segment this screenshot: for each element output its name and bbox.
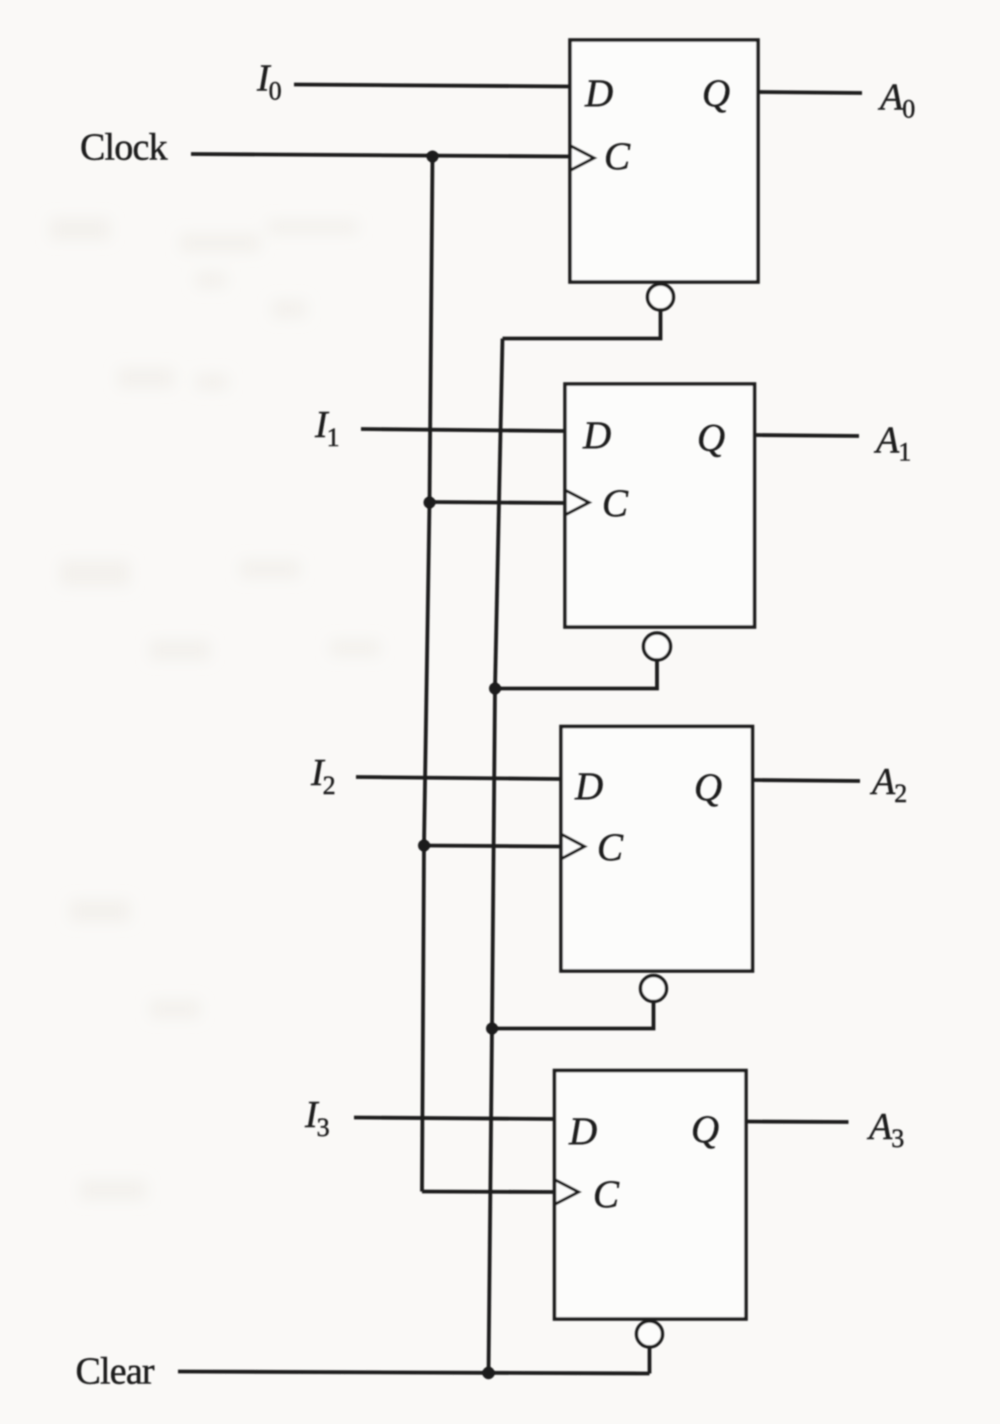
wire I1 to U2 D bbox=[361, 429, 565, 431]
wire Clear input bbox=[178, 1372, 650, 1374]
faint scan bleed-through smudges bbox=[50, 218, 380, 1200]
svg-text:Q: Q bbox=[691, 1108, 719, 1151]
wire clock to U2 C bbox=[430, 502, 566, 503]
svg-text:Q: Q bbox=[697, 417, 725, 460]
wire U1 Q to A0 bbox=[758, 92, 862, 93]
svg-text:Clock: Clock bbox=[80, 127, 168, 169]
U2 clear bubble bbox=[644, 633, 671, 660]
svg-text:C: C bbox=[597, 826, 624, 869]
wire U3 Q to A2 bbox=[753, 780, 861, 781]
flip-flop U1 box bbox=[570, 40, 758, 282]
wire U2 Q to A1 bbox=[755, 435, 860, 436]
flip-flop U4 box bbox=[555, 1071, 747, 1320]
wire I3 to U4 D bbox=[354, 1118, 555, 1120]
junction dot clear/U2 bbox=[489, 683, 501, 695]
junction dot clock/U2C bbox=[424, 497, 436, 509]
svg-text:D: D bbox=[574, 765, 603, 808]
wire U4 Q to A3 bbox=[746, 1120, 849, 1124]
svg-text:Q: Q bbox=[702, 72, 730, 115]
flip-flop U2 box bbox=[565, 384, 755, 627]
svg-text:D: D bbox=[584, 72, 613, 115]
junction dot clear/Clear bbox=[482, 1367, 494, 1379]
wire U3 bubble to clear bus bbox=[492, 1002, 654, 1029]
wire U2 bubble to clear bus bbox=[495, 660, 657, 689]
wire Clock to U1 C bbox=[191, 154, 570, 157]
wire clear vertical bus bbox=[489, 339, 503, 1374]
junction dot clock/U3C bbox=[418, 840, 430, 852]
junction dot clock/U1C bbox=[427, 151, 439, 163]
flip-flop U3 box bbox=[561, 727, 753, 972]
U4 clear bubble bbox=[637, 1321, 663, 1347]
U1 clock edge triangle bbox=[570, 146, 594, 171]
svg-text:C: C bbox=[602, 482, 629, 525]
wire U4 bubble to clear bbox=[648, 1347, 652, 1374]
svg-text:D: D bbox=[582, 414, 611, 457]
svg-text:C: C bbox=[604, 135, 631, 178]
svg-text:Q: Q bbox=[694, 766, 722, 809]
wire U1 bubble to clear bus bbox=[503, 310, 661, 339]
U4 clock edge triangle bbox=[555, 1180, 579, 1205]
U3 clear bubble bbox=[641, 976, 667, 1002]
svg-text:D: D bbox=[568, 1110, 597, 1153]
U1 clear bubble bbox=[648, 284, 674, 310]
junction dot clear/U3 bbox=[486, 1023, 498, 1035]
wire clock vertical bus bbox=[422, 156, 433, 1192]
U3 clock edge triangle bbox=[561, 834, 585, 859]
svg-text:Clear: Clear bbox=[76, 1351, 155, 1393]
svg-text:C: C bbox=[593, 1173, 620, 1216]
wire clock to U4 C bbox=[422, 1190, 555, 1194]
wire clock to U3 C bbox=[424, 846, 561, 847]
wire I0 to U1 D bbox=[294, 85, 570, 87]
U2 clock edge triangle bbox=[565, 490, 589, 515]
wire I2 to U3 D bbox=[356, 777, 561, 779]
